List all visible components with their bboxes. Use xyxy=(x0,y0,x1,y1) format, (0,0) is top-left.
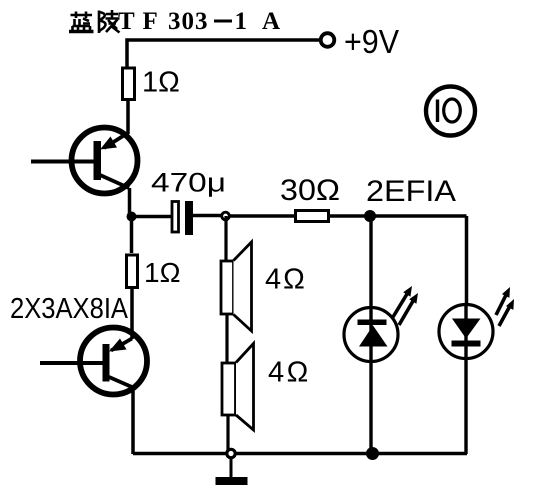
svg-text:1Ω: 1Ω xyxy=(144,257,181,288)
svg-text:1: 1 xyxy=(235,8,248,35)
wire top rail to +9V terminal xyxy=(127,40,319,67)
wire C1 to node B xyxy=(193,214,221,218)
terminal +9V (open circle) xyxy=(321,33,335,47)
wire Q2 collector down to rail xyxy=(131,388,135,455)
wire SP2 to rail xyxy=(226,415,229,454)
svg-text:30Ω: 30Ω xyxy=(280,174,340,207)
LED D2 xyxy=(439,287,514,359)
junction rail-ground (open) xyxy=(227,449,235,457)
node C junction xyxy=(364,210,376,222)
junction rail-LED1 xyxy=(366,447,379,460)
capacitor C1 xyxy=(172,201,193,235)
wire Q1 collector to node A xyxy=(128,188,132,217)
speaker SP2 xyxy=(222,344,254,431)
svg-text:4Ω: 4Ω xyxy=(265,264,307,296)
wire SP1 to SP2 xyxy=(225,314,228,363)
svg-text:T F: T F xyxy=(118,8,159,35)
svg-text:470μ: 470μ xyxy=(151,168,226,198)
wire node B down to SP1 xyxy=(224,216,227,261)
node B junction (small open) xyxy=(222,212,230,220)
wire node C to LED2 corner xyxy=(370,216,467,303)
svg-text:+9V: +9V xyxy=(344,23,399,60)
resistor R2 xyxy=(127,255,138,288)
wire LED2 vertical through to rail xyxy=(464,303,467,454)
label title 蓝陵 (hanzi, drawn) xyxy=(69,10,120,33)
ground xyxy=(230,459,233,478)
svg-text:1Ω: 1Ω xyxy=(142,67,180,99)
wire node A down to R2 xyxy=(130,217,134,254)
resistor R1 xyxy=(123,68,135,100)
speaker SP1 xyxy=(221,242,252,331)
wire R1 to Q1 xyxy=(126,101,130,134)
resistor R3 30Ω xyxy=(296,211,329,222)
wire node A to C1 xyxy=(132,215,172,219)
wire R2 to Q2 xyxy=(130,289,134,339)
svg-text:2EFIA: 2EFIA xyxy=(366,175,456,208)
node A junction xyxy=(127,212,137,222)
wire bottom rail xyxy=(133,452,467,456)
svg-text:A: A xyxy=(262,8,280,35)
svg-text:4Ω: 4Ω xyxy=(268,357,311,389)
transistor Q2 xyxy=(40,328,147,395)
wire R3 to node C xyxy=(330,214,365,218)
badge circled 10 xyxy=(426,87,475,136)
svg-text:2X3AX8IA: 2X3AX8IA xyxy=(10,293,129,325)
wire node B to R3 xyxy=(230,214,295,218)
svg-text:303: 303 xyxy=(168,8,209,35)
LED D1 xyxy=(344,286,418,362)
transistor Q1 xyxy=(31,128,138,194)
wire node C down through LED1 to rail xyxy=(369,216,372,454)
